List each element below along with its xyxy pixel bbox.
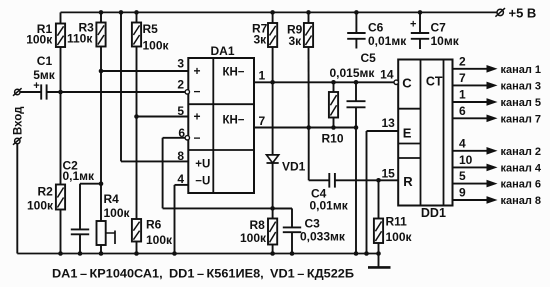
svg-text:Вход: Вход xyxy=(13,106,25,135)
pin 5 label xyxy=(177,104,184,118)
pin 8 label xyxy=(177,149,184,163)
svg-text:100к: 100к xyxy=(146,233,173,247)
wire pin7 to C4 xyxy=(309,128,330,181)
output pin 4 канал 2 xyxy=(453,136,542,157)
node R11 junction xyxy=(376,178,381,183)
svg-text:0,015мк: 0,015мк xyxy=(330,66,376,80)
capacitor C7 xyxy=(410,10,460,49)
svg-text:R5: R5 xyxy=(143,22,159,36)
output pin 7 канал 3 xyxy=(453,71,542,92)
svg-text:7: 7 xyxy=(259,114,266,128)
counter DD1 xyxy=(398,60,452,221)
svg-text:0,033мк: 0,033мк xyxy=(300,229,346,243)
svg-text:9: 9 xyxy=(459,186,466,200)
svg-text:C1: C1 xyxy=(37,54,53,68)
wire C1 to pin2 xyxy=(47,91,185,93)
svg-text:+: + xyxy=(193,64,200,78)
node R10 junction xyxy=(331,80,336,85)
svg-text:+: + xyxy=(33,80,39,92)
pin 14 bubble xyxy=(380,68,398,85)
resistor R3 xyxy=(67,10,106,71)
capacitor C3 xyxy=(273,208,346,255)
svg-text:R11: R11 xyxy=(386,215,408,229)
svg-text:DA1 – КР1040СА1, DD1 – К561ИЕ8: DA1 – КР1040СА1, DD1 – К561ИЕ8, VD1 – КД… xyxy=(52,269,354,281)
svg-text:канал 8: канал 8 xyxy=(501,195,542,207)
svg-text:100к: 100к xyxy=(26,32,53,46)
input terminal upper xyxy=(13,88,22,96)
node C5 bottom junction xyxy=(354,125,359,130)
wire +5V to pin8 +U xyxy=(119,10,189,161)
svg-text:R6: R6 xyxy=(146,218,162,232)
output pin 1 канал 5 xyxy=(453,88,542,109)
svg-text:канал 4: канал 4 xyxy=(501,162,542,174)
capacitor C1 xyxy=(33,54,56,100)
node Вход label xyxy=(13,106,25,135)
svg-text:14: 14 xyxy=(380,68,394,82)
resistor R11 xyxy=(374,180,413,256)
svg-text:канал 3: канал 3 xyxy=(501,80,542,92)
output pin 10 канал 4 xyxy=(453,153,542,174)
svg-text:DA1: DA1 xyxy=(211,44,235,58)
node C5 junction xyxy=(354,80,359,85)
wire ground rail xyxy=(17,253,378,255)
svg-text:3к: 3к xyxy=(254,32,268,46)
svg-text:канал 7: канал 7 xyxy=(501,113,542,125)
svg-text:100к: 100к xyxy=(143,39,170,53)
svg-text:5: 5 xyxy=(459,169,466,183)
capacitor C2 xyxy=(63,159,102,256)
svg-text:−U: −U xyxy=(195,176,210,188)
node R3-R4 junction xyxy=(99,69,104,74)
resistor R2 xyxy=(27,92,65,256)
node C2 tap junction xyxy=(99,181,104,186)
svg-text:5: 5 xyxy=(177,104,184,118)
svg-text:3к: 3к xyxy=(289,34,303,48)
svg-text:DD1: DD1 xyxy=(421,206,446,220)
capacitor C5 xyxy=(330,51,377,128)
svg-text:E: E xyxy=(403,125,412,140)
svg-text:8: 8 xyxy=(177,149,184,163)
node R7 junction xyxy=(270,80,275,85)
node A junction xyxy=(58,90,63,95)
trimmer R4 xyxy=(97,192,131,256)
svg-text:15: 15 xyxy=(382,167,396,181)
wire lower terminal to ground rail xyxy=(16,144,18,254)
pin 4 label xyxy=(177,172,184,186)
svg-text:−: − xyxy=(193,85,200,99)
svg-text:1: 1 xyxy=(259,69,266,83)
svg-text:R: R xyxy=(403,174,413,189)
output pin 9 канал 8 xyxy=(453,186,542,207)
svg-text:C6: C6 xyxy=(368,21,384,35)
svg-text:+: + xyxy=(410,19,416,31)
wire input to C1 xyxy=(20,91,41,93)
svg-text:C5: C5 xyxy=(361,51,377,65)
wire C5 net to ground rail xyxy=(354,128,359,256)
resistor R6 xyxy=(132,117,173,256)
capacitor C6 xyxy=(347,10,407,48)
svg-text:3: 3 xyxy=(177,57,184,71)
svg-text:0,01мк: 0,01мк xyxy=(368,34,407,48)
wire pin13 E to ground xyxy=(364,116,398,256)
svg-text:13: 13 xyxy=(382,116,396,130)
output pin 6 канал 7 xyxy=(453,104,542,125)
svg-text:канал 2: канал 2 xyxy=(501,146,542,158)
input terminal lower xyxy=(13,137,22,145)
wire pin1 clock xyxy=(254,69,394,83)
svg-text:0,1мк: 0,1мк xyxy=(63,169,96,183)
svg-text:R10: R10 xyxy=(322,132,344,146)
svg-text:100к: 100к xyxy=(240,231,267,245)
node R10 bottom junction xyxy=(331,125,336,130)
pin 6 label xyxy=(178,126,185,140)
svg-text:6: 6 xyxy=(178,126,185,140)
svg-text:4: 4 xyxy=(177,172,184,186)
pin 2 label xyxy=(177,77,184,91)
svg-text:КН−: КН− xyxy=(222,67,244,79)
resistor R5 xyxy=(132,10,170,116)
svg-text:канал 5: канал 5 xyxy=(501,97,542,109)
svg-text:6: 6 xyxy=(459,104,466,118)
resistor R8 xyxy=(240,208,277,255)
wire pin3 xyxy=(101,70,188,72)
svg-text:100к: 100к xyxy=(104,206,131,220)
svg-text:10: 10 xyxy=(459,153,473,167)
wire R3 to R4 xyxy=(100,71,102,221)
svg-text:CT: CT xyxy=(426,74,443,88)
ground xyxy=(368,254,391,268)
svg-text:+U: +U xyxy=(195,159,210,171)
svg-text:+: + xyxy=(193,110,200,124)
output pin 2 канал 1 xyxy=(453,54,542,75)
svg-text:канал 6: канал 6 xyxy=(501,179,542,191)
capacitor C4 xyxy=(310,173,349,213)
svg-text:канал 1: канал 1 xyxy=(501,64,542,76)
node R9 junction xyxy=(306,125,311,130)
svg-text:0,01мк: 0,01мк xyxy=(310,199,349,213)
svg-text:КН−: КН− xyxy=(222,114,244,126)
resistor R10 xyxy=(322,82,344,145)
output pin 5 канал 6 xyxy=(453,169,542,190)
svg-text:10мк: 10мк xyxy=(431,34,460,48)
svg-text:−: − xyxy=(193,131,200,145)
node VD1-R8 junction xyxy=(270,206,275,211)
svg-text:7: 7 xyxy=(459,71,466,85)
wire pin6 to VD1/R8 node xyxy=(163,138,292,209)
pin 3 label xyxy=(177,57,184,71)
wire pin4 -U to ground xyxy=(172,185,188,256)
resistor R7 xyxy=(252,10,277,82)
svg-text:1: 1 xyxy=(459,88,466,102)
svg-text:R4: R4 xyxy=(104,192,120,206)
node pin5 junction xyxy=(134,114,139,119)
svg-text:R8: R8 xyxy=(250,218,266,232)
svg-text:C: C xyxy=(402,75,412,90)
diode VD1 xyxy=(267,82,306,208)
wire pin7 xyxy=(254,114,356,128)
op-amp comparator DA1 xyxy=(185,44,254,193)
svg-text:2: 2 xyxy=(459,54,466,68)
wire +5V top rail xyxy=(61,11,498,13)
wire C4 to pin15 R xyxy=(335,167,398,181)
resistor R1 xyxy=(26,12,65,92)
svg-text:4: 4 xyxy=(459,136,466,150)
svg-text:100к: 100к xyxy=(386,230,413,244)
+5V terminal xyxy=(495,5,536,20)
caption xyxy=(52,269,354,281)
svg-text:R2: R2 xyxy=(38,185,54,199)
svg-text:110к: 110к xyxy=(67,31,93,45)
svg-text:+5 В: +5 В xyxy=(509,5,537,20)
wire pin5 xyxy=(137,116,189,118)
resistor R9 xyxy=(287,10,313,127)
svg-text:VD1: VD1 xyxy=(282,160,306,174)
svg-text:2: 2 xyxy=(177,77,184,91)
svg-text:100к: 100к xyxy=(27,199,54,213)
svg-text:C7: C7 xyxy=(431,21,447,35)
